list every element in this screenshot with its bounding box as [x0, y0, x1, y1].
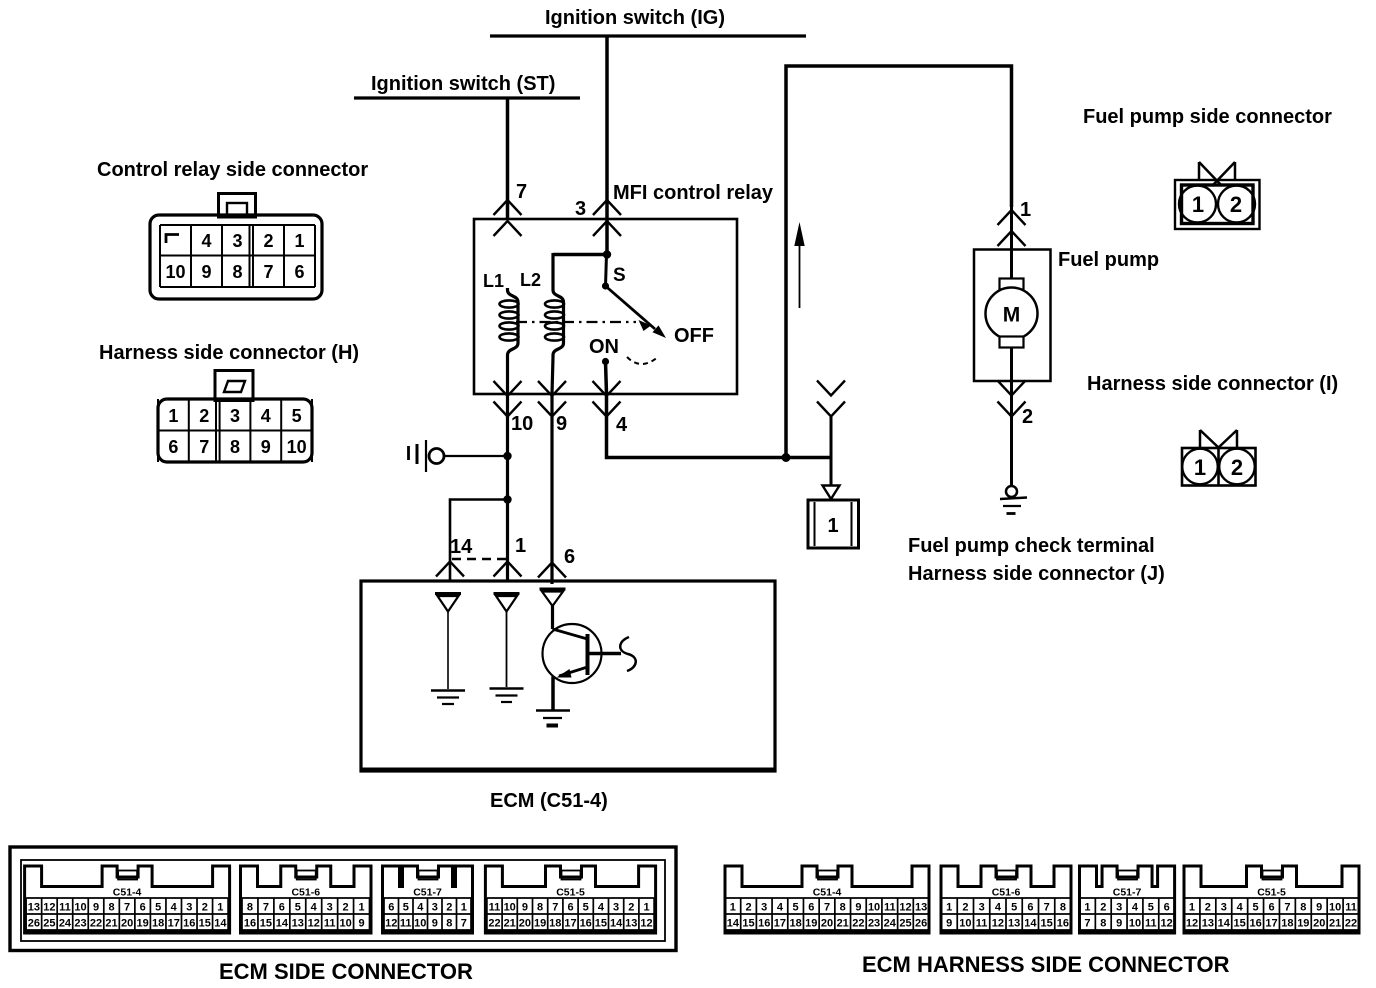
- svg-text:13: 13: [292, 918, 304, 930]
- svg-text:12: 12: [640, 918, 652, 930]
- svg-text:C51-6: C51-6: [992, 887, 1021, 899]
- svg-text:6: 6: [168, 437, 178, 457]
- current direction arrow up: [799, 243, 801, 308]
- svg-text:4: 4: [995, 902, 1002, 914]
- svg-text:7: 7: [124, 902, 130, 914]
- ECM side connector C51-5: [485, 866, 655, 935]
- svg-text:Fuel pump: Fuel pump: [1058, 249, 1159, 271]
- svg-text:9: 9: [855, 902, 861, 914]
- svg-text:23: 23: [868, 918, 880, 930]
- svg-text:L1: L1: [483, 271, 504, 291]
- svg-text:3: 3: [432, 902, 438, 914]
- switch linkage dash-dot line: [516, 321, 636, 323]
- svg-text:16: 16: [244, 918, 256, 930]
- svg-text:22: 22: [90, 918, 102, 930]
- svg-text:2: 2: [1022, 406, 1033, 428]
- svg-text:14: 14: [276, 918, 289, 930]
- svg-text:14: 14: [1218, 918, 1231, 930]
- svg-text:15: 15: [595, 918, 607, 930]
- ECM side connector C51-6: [241, 866, 372, 935]
- svg-text:C51-5: C51-5: [556, 887, 585, 899]
- svg-text:6: 6: [140, 902, 146, 914]
- svg-text:7: 7: [199, 437, 209, 457]
- svg-text:2: 2: [1230, 192, 1242, 217]
- transistor Q1 collector wire: [551, 605, 554, 629]
- transistor Q1 emitter with arrow: [559, 667, 588, 676]
- svg-text:5: 5: [793, 902, 799, 914]
- svg-text:19: 19: [534, 918, 546, 930]
- svg-text:5: 5: [583, 902, 589, 914]
- svg-text:4: 4: [201, 231, 211, 251]
- svg-text:8: 8: [840, 902, 846, 914]
- svg-text:12: 12: [1161, 918, 1173, 930]
- svg-text:14: 14: [1024, 918, 1037, 930]
- svg-text:15: 15: [742, 918, 754, 930]
- relay pin 3 connector chevrons: [593, 200, 621, 215]
- svg-text:3: 3: [232, 231, 242, 251]
- svg-text:9: 9: [261, 437, 271, 457]
- svg-text:21: 21: [504, 918, 516, 930]
- svg-text:3: 3: [613, 902, 619, 914]
- svg-text:11: 11: [400, 918, 412, 930]
- relay pin 9 connector chevrons: [538, 381, 566, 396]
- fuel pump pin 2 connector chevrons: [998, 381, 1026, 396]
- svg-text:14: 14: [214, 918, 227, 930]
- svg-text:5: 5: [1253, 902, 1259, 914]
- ECM internal ground path pin 1: [494, 592, 520, 595]
- svg-text:17: 17: [564, 918, 576, 930]
- wire: check terminal drop: [830, 417, 833, 486]
- svg-text:14: 14: [727, 918, 740, 930]
- svg-text:21: 21: [105, 918, 117, 930]
- svg-text:2: 2: [343, 902, 349, 914]
- MFI control relay box: [474, 219, 737, 394]
- svg-text:2: 2: [199, 406, 209, 426]
- fuel pump motor M: [986, 288, 1038, 340]
- svg-text:1: 1: [168, 406, 178, 426]
- svg-text:11: 11: [884, 902, 896, 914]
- svg-text:10: 10: [74, 902, 86, 914]
- wire: relay pin 10 down to ECM pin 1: [506, 394, 509, 582]
- svg-text:2: 2: [1100, 902, 1106, 914]
- ECM harness side connector C51-7: [1080, 866, 1175, 935]
- ECM pin 6 connector chevron: [538, 563, 566, 578]
- fuel pump side connector symbol: [1198, 162, 1201, 180]
- svg-text:22: 22: [852, 918, 864, 930]
- svg-text:3: 3: [761, 902, 767, 914]
- ECM side connector C51-4: [25, 866, 230, 935]
- svg-text:6: 6: [564, 546, 575, 568]
- svg-text:4: 4: [261, 406, 271, 426]
- svg-text:12: 12: [43, 902, 55, 914]
- svg-text:15: 15: [1041, 918, 1053, 930]
- svg-text:11: 11: [1345, 902, 1357, 914]
- svg-text:Control relay side connector: Control relay side connector: [97, 159, 368, 181]
- ECM box: [361, 581, 775, 771]
- svg-text:25: 25: [43, 918, 55, 930]
- svg-text:1: 1: [1194, 455, 1206, 480]
- wire: IG feed down to relay pin 3: [605, 37, 609, 219]
- svg-text:26: 26: [28, 918, 40, 930]
- svg-text:10: 10: [165, 262, 185, 282]
- svg-text:2: 2: [1231, 455, 1243, 480]
- svg-text:9: 9: [556, 413, 567, 435]
- svg-text:13: 13: [28, 902, 40, 914]
- svg-text:4: 4: [1237, 902, 1244, 914]
- svg-text:Ignition switch (IG): Ignition switch (IG): [545, 7, 725, 29]
- ECM harness side connector C51-5: [1184, 866, 1359, 935]
- switch common contact S: [602, 282, 609, 289]
- svg-text:8: 8: [108, 902, 114, 914]
- transistor Q1 body circle: [543, 624, 602, 683]
- ECM harness side connector C51-6: [941, 866, 1071, 935]
- transistor Q1 base lead: [588, 652, 622, 656]
- svg-text:5: 5: [1011, 902, 1017, 914]
- svg-text:19: 19: [805, 918, 817, 930]
- junction node fuel pump feed: [782, 453, 791, 462]
- svg-text:16: 16: [1057, 918, 1069, 930]
- svg-text:22: 22: [488, 918, 500, 930]
- svg-text:2: 2: [263, 231, 273, 251]
- svg-text:15: 15: [199, 918, 211, 930]
- svg-text:1: 1: [1084, 902, 1090, 914]
- svg-text:5: 5: [292, 406, 302, 426]
- svg-text:13: 13: [1202, 918, 1214, 930]
- svg-text:10: 10: [1129, 918, 1141, 930]
- svg-text:11: 11: [324, 918, 336, 930]
- svg-text:14: 14: [610, 918, 623, 930]
- svg-text:10: 10: [414, 918, 426, 930]
- ECM side connector C51-7: [383, 866, 473, 935]
- bus bar under Ignition switch (IG): [490, 34, 806, 37]
- svg-text:19: 19: [1297, 918, 1309, 930]
- svg-text:26: 26: [915, 918, 927, 930]
- svg-text:2: 2: [745, 902, 751, 914]
- svg-text:6: 6: [294, 262, 304, 282]
- svg-text:C51-7: C51-7: [1113, 887, 1142, 899]
- svg-text:2: 2: [446, 902, 452, 914]
- svg-text:8: 8: [247, 902, 253, 914]
- wire: into motor: [1010, 207, 1013, 285]
- svg-text:4: 4: [1132, 902, 1139, 914]
- wire: branch to ECM pin 14: [450, 500, 508, 583]
- wire: relay pin 4 right to check-terminal branch: [607, 394, 832, 458]
- svg-text:ECM SIDE CONNECTOR: ECM SIDE CONNECTOR: [219, 959, 473, 984]
- svg-text:2: 2: [962, 902, 968, 914]
- wire: emitter to ground: [551, 677, 555, 711]
- svg-text:6: 6: [279, 902, 285, 914]
- svg-text:7: 7: [516, 181, 527, 203]
- transistor emitter ground: [536, 709, 570, 712]
- svg-text:6: 6: [388, 902, 394, 914]
- svg-text:S: S: [613, 265, 626, 286]
- svg-text:3: 3: [327, 902, 333, 914]
- svg-text:12: 12: [1186, 918, 1198, 930]
- ECM driver transistor input triangle: [540, 588, 566, 591]
- svg-text:2: 2: [1205, 902, 1211, 914]
- wire: L1 to relay pin 10: [506, 357, 509, 394]
- svg-text:1: 1: [358, 902, 364, 914]
- svg-text:13: 13: [1008, 918, 1020, 930]
- svg-text:Fuel pump side connector: Fuel pump side connector: [1083, 106, 1332, 128]
- svg-text:3: 3: [186, 902, 192, 914]
- ECM side connector outer box: [10, 847, 676, 951]
- svg-text:12: 12: [308, 918, 320, 930]
- svg-text:1: 1: [1189, 902, 1195, 914]
- svg-text:Harness side connector (I): Harness side connector (I): [1087, 373, 1338, 395]
- svg-text:4: 4: [417, 902, 424, 914]
- svg-text:8: 8: [230, 437, 240, 457]
- transistor Q1 base bar: [586, 634, 590, 675]
- svg-text:C51-5: C51-5: [1257, 887, 1286, 899]
- svg-text:23: 23: [74, 918, 86, 930]
- svg-text:6: 6: [808, 902, 814, 914]
- svg-text:4: 4: [598, 902, 605, 914]
- check terminal arrow: [823, 486, 840, 500]
- svg-text:Harness side connector (H): Harness side connector (H): [99, 342, 359, 364]
- svg-text:4: 4: [171, 902, 178, 914]
- svg-text:10: 10: [868, 902, 880, 914]
- svg-text:1: 1: [294, 231, 304, 251]
- svg-text:1: 1: [461, 902, 467, 914]
- svg-text:C51-4: C51-4: [813, 887, 842, 899]
- svg-text:Fuel pump check terminal: Fuel pump check terminal: [908, 535, 1155, 557]
- harness side connector I symbol: [1199, 430, 1202, 448]
- svg-text:6: 6: [1027, 902, 1033, 914]
- relay pin 10 connector chevrons: [494, 381, 522, 396]
- svg-text:10: 10: [339, 918, 351, 930]
- svg-text:9: 9: [946, 918, 952, 930]
- svg-text:1: 1: [515, 535, 526, 557]
- svg-text:11: 11: [1145, 918, 1157, 930]
- svg-text:7: 7: [824, 902, 830, 914]
- svg-text:2: 2: [202, 902, 208, 914]
- svg-text:20: 20: [821, 918, 833, 930]
- svg-text:ECM HARNESS SIDE CONNECTOR: ECM HARNESS SIDE CONNECTOR: [862, 952, 1230, 977]
- ECM harness side connector C51-4: [725, 866, 929, 935]
- svg-text:8: 8: [537, 902, 543, 914]
- svg-text:1: 1: [1192, 192, 1204, 217]
- svg-text:C51-4: C51-4: [113, 887, 142, 899]
- svg-text:10: 10: [287, 437, 307, 457]
- svg-text:16: 16: [758, 918, 770, 930]
- wire: L2 to relay pin 9: [552, 357, 553, 394]
- svg-text:6: 6: [1268, 902, 1274, 914]
- svg-text:Harness side connector (J): Harness side connector (J): [908, 563, 1165, 585]
- wire: junction down to switch S: [606, 255, 607, 287]
- wire: relay pin 9 down to ECM pin 6: [550, 394, 553, 584]
- svg-text:15: 15: [1234, 918, 1246, 930]
- ECM internal ground path pin 14: [435, 592, 461, 595]
- svg-text:21: 21: [1329, 918, 1341, 930]
- svg-text:15: 15: [260, 918, 272, 930]
- svg-text:12: 12: [899, 902, 911, 914]
- wire: ON contact to relay pin 4: [606, 362, 607, 395]
- svg-text:16: 16: [1249, 918, 1261, 930]
- svg-text:18: 18: [789, 918, 801, 930]
- svg-text:1: 1: [1020, 199, 1031, 221]
- wire: pin3 into relay to junction: [605, 219, 609, 254]
- svg-text:3: 3: [230, 406, 240, 426]
- relay switch arm to OFF: [606, 286, 656, 329]
- svg-text:1: 1: [217, 902, 223, 914]
- wire: motor to ground: [1010, 347, 1013, 486]
- condenser symbol at wire 10: [407, 446, 410, 460]
- svg-text:16: 16: [183, 918, 195, 930]
- motor brush top: [1000, 279, 1024, 290]
- svg-text:17: 17: [168, 918, 180, 930]
- svg-text:7: 7: [461, 918, 467, 930]
- svg-text:5: 5: [403, 902, 409, 914]
- svg-text:8: 8: [1300, 902, 1306, 914]
- svg-text:10: 10: [504, 902, 516, 914]
- svg-text:8: 8: [446, 918, 452, 930]
- harness side connector H pin grid: [157, 399, 159, 462]
- svg-text:C51-7: C51-7: [413, 887, 442, 899]
- fuel pump ground: [1006, 486, 1017, 497]
- svg-text:3: 3: [1116, 902, 1122, 914]
- svg-text:3: 3: [1221, 902, 1227, 914]
- svg-text:1: 1: [730, 902, 736, 914]
- svg-text:7: 7: [1284, 902, 1290, 914]
- ON contact travel dashed arc: [627, 357, 658, 364]
- svg-text:11: 11: [489, 902, 501, 914]
- svg-text:ECM (C51-4): ECM (C51-4): [490, 790, 608, 812]
- svg-text:12: 12: [385, 918, 397, 930]
- svg-text:8: 8: [232, 262, 242, 282]
- svg-text:L2: L2: [520, 270, 541, 290]
- svg-text:8: 8: [1100, 918, 1106, 930]
- svg-text:21: 21: [837, 918, 849, 930]
- svg-text:6: 6: [1164, 902, 1170, 914]
- svg-text:10: 10: [1329, 902, 1341, 914]
- svg-text:7: 7: [263, 262, 273, 282]
- svg-text:3: 3: [979, 902, 985, 914]
- bus bar under Ignition switch (ST): [354, 96, 580, 99]
- control relay side connector pin grid: [159, 225, 161, 287]
- svg-text:11: 11: [59, 902, 71, 914]
- svg-text:9: 9: [522, 902, 528, 914]
- junction node relay coil feed: [603, 250, 611, 258]
- svg-text:24: 24: [59, 918, 72, 930]
- svg-text:6: 6: [567, 902, 573, 914]
- svg-text:4: 4: [616, 414, 628, 436]
- svg-text:9: 9: [93, 902, 99, 914]
- svg-text:1: 1: [827, 515, 838, 537]
- svg-text:18: 18: [1281, 918, 1293, 930]
- relay pin 4 connector chevrons: [593, 381, 621, 396]
- svg-text:24: 24: [884, 918, 897, 930]
- svg-text:13: 13: [625, 918, 637, 930]
- wire: junction to L2 coil top: [553, 253, 607, 257]
- svg-text:M: M: [1003, 304, 1021, 327]
- svg-text:OFF: OFF: [674, 325, 714, 347]
- fuel pump pin 1 connector chevrons: [998, 210, 1026, 225]
- ECM pin 14 connector chevron: [436, 562, 464, 577]
- fuel pump check terminal box 1: [808, 500, 859, 548]
- svg-text:9: 9: [358, 918, 364, 930]
- svg-text:9: 9: [1316, 902, 1322, 914]
- check terminal connector chevrons: [817, 381, 845, 396]
- control relay connector blocked pin mark: [166, 235, 179, 244]
- svg-text:9: 9: [201, 262, 211, 282]
- svg-text:1: 1: [946, 902, 952, 914]
- svg-text:22: 22: [1345, 918, 1357, 930]
- svg-text:5: 5: [295, 902, 301, 914]
- svg-text:5: 5: [1148, 902, 1154, 914]
- harness side connector H body: [215, 371, 253, 401]
- svg-text:10: 10: [959, 918, 971, 930]
- svg-text:MFI control relay: MFI control relay: [613, 182, 774, 204]
- svg-text:Ignition switch (ST): Ignition switch (ST): [371, 73, 555, 95]
- ON contact node: [602, 358, 609, 365]
- svg-text:11: 11: [976, 918, 988, 930]
- svg-text:3: 3: [575, 198, 586, 220]
- svg-text:16: 16: [580, 918, 592, 930]
- svg-text:7: 7: [263, 902, 269, 914]
- ECM pin 1 connector chevron: [494, 562, 522, 577]
- fuel pump box: [974, 250, 1051, 382]
- svg-text:17: 17: [774, 918, 786, 930]
- svg-text:4: 4: [777, 902, 784, 914]
- svg-text:C51-6: C51-6: [291, 887, 320, 899]
- svg-text:7: 7: [1084, 918, 1090, 930]
- wire: fuel pump supply riser and top run: [786, 66, 1012, 458]
- svg-text:20: 20: [519, 918, 531, 930]
- svg-text:9: 9: [432, 918, 438, 930]
- junction node wire10/condenser: [503, 452, 511, 460]
- svg-text:14: 14: [450, 536, 473, 558]
- svg-text:1: 1: [643, 902, 649, 914]
- svg-text:17: 17: [1265, 918, 1277, 930]
- transistor base lead hook: [620, 637, 636, 671]
- junction node wire10 branch: [503, 495, 511, 503]
- svg-text:2: 2: [628, 902, 634, 914]
- svg-text:20: 20: [1313, 918, 1325, 930]
- svg-text:8: 8: [1060, 902, 1066, 914]
- svg-text:13: 13: [915, 902, 927, 914]
- control relay side connector body: [219, 194, 256, 218]
- svg-text:20: 20: [121, 918, 133, 930]
- svg-text:18: 18: [152, 918, 164, 930]
- relay pin 7 connector chevrons: [494, 200, 522, 215]
- motor brush bottom: [1000, 337, 1024, 348]
- svg-text:7: 7: [552, 902, 558, 914]
- svg-text:ON: ON: [589, 336, 619, 358]
- svg-text:4: 4: [311, 902, 318, 914]
- svg-text:25: 25: [899, 918, 911, 930]
- wire: ST feed down to relay pin 7: [506, 99, 510, 219]
- svg-text:10: 10: [511, 413, 533, 435]
- svg-text:5: 5: [155, 902, 161, 914]
- dashed tie line between pins 14 and 1: [452, 558, 506, 560]
- svg-text:12: 12: [992, 918, 1004, 930]
- svg-text:9: 9: [1116, 918, 1122, 930]
- svg-text:19: 19: [137, 918, 149, 930]
- svg-text:7: 7: [1044, 902, 1050, 914]
- svg-text:18: 18: [549, 918, 561, 930]
